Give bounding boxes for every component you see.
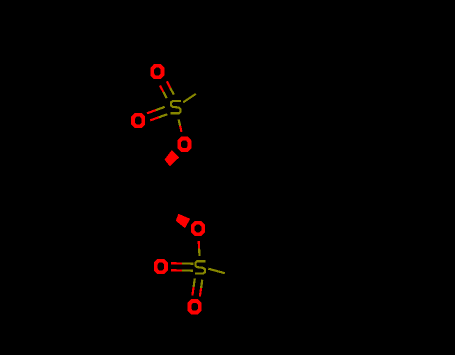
stereo wedge bond C2-O4 (hashed wedge, red half)	[176, 214, 190, 228]
stereo wedge bond C1-O3 (solid wedge, red half)	[165, 150, 180, 166]
double bond S2=O5	[171, 263, 194, 271]
sulfonyl oxygen O6 (bottom S=O)	[188, 299, 202, 314]
sulfur S2 (lower methanesulfonyl)	[195, 261, 206, 273]
bond O4-S2	[198, 241, 201, 256]
sulfonyl oxygen O2 (left S=O)	[131, 113, 145, 128]
bond S1-O3	[179, 120, 182, 132]
wire bond S2-C half-bond to carbon skeleton	[208, 269, 225, 274]
ester oxygen O4	[191, 221, 205, 236]
double bond S1=O1	[160, 81, 174, 98]
double bond S2=O6	[192, 279, 202, 297]
wire bond S1-C half-bond to carbon skeleton	[183, 94, 196, 102]
sulfonyl oxygen O5 (left S=O of lower group)	[154, 259, 168, 274]
sulfonyl oxygen O1 (top S=O)	[150, 64, 164, 79]
double bond S1=O2	[147, 107, 167, 121]
ester oxygen O3	[177, 137, 191, 152]
sulfur S1 (upper methanesulfonyl)	[170, 101, 181, 113]
